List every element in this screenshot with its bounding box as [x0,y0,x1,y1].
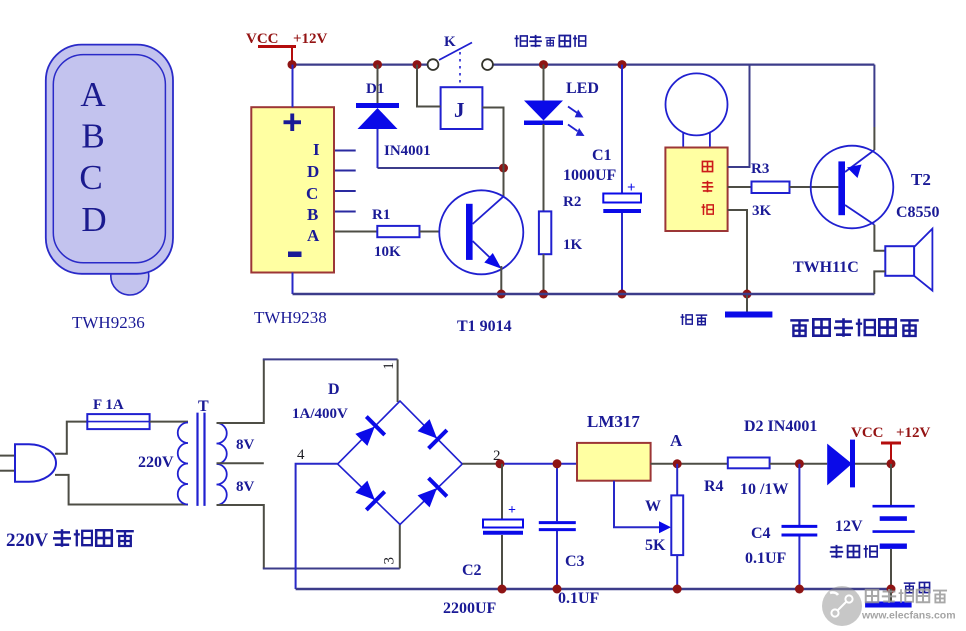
resistor R3 [752,182,790,194]
label 接地 (ground) [904,582,930,592]
svg-text:D: D [81,200,106,239]
node battery ground [887,585,896,594]
bridge rectifier D 1A/400V [338,401,463,525]
svg-text:R4: R4 [704,478,724,495]
svg-text:T2: T2 [911,170,931,189]
svg-text:+: + [508,503,516,518]
wire speaker bottom to rail [874,271,885,294]
svg-text:R2: R2 [563,194,581,210]
diode D1 [356,65,399,168]
svg-text:D: D [307,162,319,181]
fuse F 1A [87,414,149,429]
svg-text:4: 4 [297,447,305,463]
wire plug lower to transformer primary [55,475,188,505]
svg-text:3: 3 [382,557,398,565]
wire pin A to R1 [335,231,377,233]
wire secondary top to bridge node 1 [217,359,264,423]
wire fuse to transformer primary [150,421,188,423]
node potentiometer ground [673,585,682,594]
node R4/C4 junction [795,459,804,468]
svg-text:+12V: +12V [896,425,931,441]
svg-text:+12V: +12V [293,31,328,47]
wire secondary centre tap [217,462,264,464]
VCC +12V power symbol (bottom) [851,425,931,464]
svg-text:1A/400V: 1A/400V [292,406,348,422]
svg-text:8V: 8V [236,479,255,495]
svg-text:C1: C1 [592,147,612,164]
svg-text:W: W [645,498,661,515]
wire collector column down to T1 [503,168,505,196]
diode bottom-right (points to node 2) [414,478,447,511]
wire LED cathode to R2 [543,124,545,212]
wire module middle stub to R3 [728,186,752,188]
wire plug upper to fuse [55,422,87,454]
potentiometer wiper arrow [659,521,671,533]
svg-text:1K: 1K [563,237,583,253]
wire R2 to bottom rail [543,254,545,294]
svg-text:10K: 10K [374,244,401,260]
potentiometer W 5K [671,464,683,589]
svg-text:10 /1W: 10 /1W [740,481,788,498]
svg-text:IN4001: IN4001 [384,143,431,159]
primary winding 220V [178,423,188,505]
node D2/battery junction [887,459,896,468]
wire R4 to D2 [770,463,828,465]
label 高响度报警器 [790,318,918,336]
svg-text:TWH9238: TWH9238 [254,308,327,327]
transformer T [178,413,227,506]
resistor R1 [377,226,419,237]
node K-rail [413,60,422,69]
label 模地 (ground) [681,314,708,325]
relay J [441,87,483,129]
wire T2 collector to speaker [874,225,885,251]
220V mains plug [0,444,56,482]
svg-text:J: J [454,98,465,122]
svg-text:8V: 8V [236,437,255,453]
wire T1 emitter to bottom rail [500,266,502,294]
transistor T2 C8550 [811,146,894,229]
LED [524,65,585,136]
svg-text:12V: 12V [835,518,863,535]
wire IC + pin to rail [292,65,294,108]
node VCC-rail [288,60,297,69]
diode D2 IN4001 [827,440,891,488]
remote transmitter TWH9236 [46,45,173,332]
svg-text:0.1UF: 0.1UF [558,590,600,607]
pin stub D [335,170,356,172]
svg-text:TWH11C: TWH11C [793,259,859,276]
IC TWH9238 [251,107,334,272]
node R2 bottom rail [539,290,548,299]
wire J right to collector column [482,108,503,169]
transistor T1 9014 [439,190,523,274]
node D1/J/T1 junction [499,164,508,173]
svg-text:VCC: VCC [851,425,884,441]
svg-text:D: D [328,381,340,398]
top supply rail wire (left of switch K) [292,63,428,65]
svg-text:A: A [307,226,320,245]
core [196,413,198,506]
switch K [428,43,493,85]
svg-text:F 1A: F 1A [93,397,124,413]
regulator LM317 [577,443,651,481]
wire LM317 adj to potentiometer [614,481,660,528]
svg-text:C: C [306,184,318,203]
wire node 2 to main output wire [462,463,500,465]
resistor R2 [539,211,551,254]
remote inner outline [53,55,165,263]
microphone bulb of alarm module [666,73,728,147]
wire module top stub to rail [728,65,750,167]
ground symbol (top circuit) [746,294,748,313]
svg-text:T1 9014: T1 9014 [457,318,512,335]
svg-text:VCC: VCC [246,31,279,47]
VCC +12V power symbol (top) [246,31,328,65]
watermark text 电子发烧友 [866,589,947,603]
speaker TWH11C [885,229,932,291]
svg-text:220V: 220V [6,530,49,551]
svg-text:LED: LED [566,80,599,97]
capacitor C3 [539,464,576,589]
svg-text:D1: D1 [366,81,384,97]
remote body outer shell [46,45,173,274]
wire D1 anode to T1 collector column [378,167,504,169]
wire rail node to J left [417,65,441,107]
node D1-rail [373,60,382,69]
svg-text:LM317: LM317 [587,412,640,431]
node LED-rail [539,60,548,69]
svg-text:C8550: C8550 [896,204,940,221]
node C1-rail [618,60,627,69]
svg-text:0.1UF: 0.1UF [745,550,787,567]
wire LM317 out to node A [651,463,728,465]
wire R1 to T1 base [420,231,440,233]
node C3 top [553,459,562,468]
node C4 ground [795,585,804,594]
svg-text:+: + [627,180,636,196]
node C2 ground [498,585,507,594]
pin stub B [335,211,356,213]
svg-text:C3: C3 [565,553,585,570]
battery 12V [873,464,915,589]
node 2 junction [496,459,505,468]
resistor R4 [728,458,770,469]
remote bottom bump [111,257,149,295]
capacitor C2 [483,464,523,589]
svg-text:R3: R3 [751,161,769,177]
capacitor C4 [782,464,818,589]
diode bottom-left (points to node 3) [352,477,385,510]
svg-text:B: B [307,205,318,224]
svg-text:T: T [198,398,209,415]
svg-text:5K: 5K [645,537,666,554]
label 蓄电池 [830,545,878,558]
node C3 ground [553,585,562,594]
svg-text:A: A [670,431,683,450]
svg-text:C: C [79,158,102,197]
svg-text:D2 IN4001: D2 IN4001 [744,418,817,435]
wire module bottom stub to ground rail [728,210,747,294]
capacitor C1 [603,65,641,294]
svg-text:1000UF: 1000UF [563,167,617,184]
pin stub I [335,150,356,152]
svg-text:2200UF: 2200UF [443,600,497,617]
svg-text:C4: C4 [751,525,771,542]
pin stub C [335,190,356,192]
svg-text:B: B [81,117,104,156]
top supply rail wire (right of switch K) [493,63,874,65]
svg-text:220V: 220V [138,454,174,471]
svg-text:R1: R1 [372,207,390,223]
svg-text:A: A [80,75,106,114]
svg-text:K: K [444,34,456,50]
diode top-left (points to node 1) [352,417,385,450]
wire R3 to T2 base [790,186,839,188]
wire node 4 to ground rail [296,464,338,589]
svg-text:1: 1 [381,362,397,370]
node C1 bottom rail [618,290,627,299]
node module ground / bottom rail [743,290,752,299]
alarm module box 红白地 [665,148,727,232]
svg-text:www.elecfans.com: www.elecfans.com [861,610,956,622]
svg-text:3K: 3K [752,203,772,219]
node T1 emitter / bottom rail [497,290,506,299]
label 发光二极管 [515,35,586,47]
node A junction [673,459,682,468]
ground rail (bottom circuit) [296,588,891,590]
ground symbol (bottom circuit) [890,589,892,603]
wire rail corner down to T2 emitter [873,65,875,127]
svg-text:C2: C2 [462,562,482,579]
svg-text:TWH9236: TWH9236 [72,313,145,332]
svg-text:I: I [313,140,320,159]
watermark logo circle [822,586,862,626]
wire secondary bottom to node 3 [217,505,264,569]
secondary winding 8V+8V [217,423,227,505]
wire IC - pin down to bottom rail [292,273,294,295]
diode top-right (points to node 2) [414,416,447,449]
bottom rail of alarm circuit [293,293,875,295]
